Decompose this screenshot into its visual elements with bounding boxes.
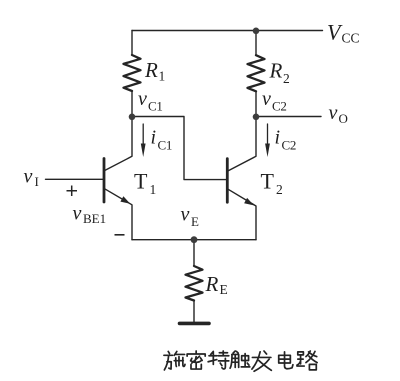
resistor R1 [124, 55, 141, 91]
caption glyph 施 [164, 351, 185, 369]
svg-text:T: T [134, 169, 148, 194]
node vE dot [191, 236, 198, 243]
svg-text:C2: C2 [272, 99, 287, 114]
wire RE to ground [193, 301, 195, 323]
wire input vI to T1 base [46, 178, 103, 180]
caption glyph 路 [297, 351, 317, 370]
caption glyph 触 [230, 351, 250, 368]
wire R2 bottom lead [255, 91, 257, 117]
polarity plus sign [67, 186, 78, 197]
svg-text:O: O [339, 111, 348, 126]
svg-text:C1: C1 [158, 138, 173, 153]
svg-text:E: E [220, 282, 228, 297]
arrowhead iC2 [265, 144, 270, 158]
svg-text:2: 2 [283, 71, 290, 86]
node vC1 dot [129, 114, 136, 121]
wire bottom emitter rail [132, 239, 256, 241]
svg-text:v: v [138, 88, 147, 110]
wire node vC2 down to T2 collector [229, 117, 257, 171]
arrowhead T1 emitter [120, 196, 130, 204]
transistor T1 bar [103, 159, 106, 203]
polarity minus sign [115, 234, 125, 236]
svg-text:C2: C2 [282, 138, 297, 153]
caption glyph 密 [187, 351, 205, 369]
wire cross-coupling vC1 to T2 base [132, 117, 226, 180]
svg-text:v: v [24, 166, 33, 188]
svg-text:1: 1 [159, 69, 166, 84]
ground [180, 322, 210, 326]
caption glyph 特 [208, 351, 229, 369]
arrowhead T2 emitter [244, 198, 254, 206]
svg-text:R: R [144, 58, 158, 82]
svg-text:R: R [269, 59, 283, 83]
transistor T2 bar [226, 159, 229, 203]
wire vE down to RE [193, 240, 195, 266]
arrowhead iC1 [141, 144, 146, 158]
svg-text:i: i [151, 127, 157, 149]
current arrow iC2 [267, 124, 269, 146]
caption glyph 电 [279, 352, 293, 369]
node vC2 dot [253, 114, 260, 121]
svg-text:v: v [73, 203, 82, 225]
wire R1 top lead [131, 31, 133, 56]
svg-text:1: 1 [150, 182, 157, 197]
caption 施密特触发电路 (hand-drawn glyphs) [164, 351, 317, 371]
svg-text:C1: C1 [148, 99, 163, 114]
svg-text:T: T [261, 169, 275, 194]
svg-text:i: i [275, 127, 281, 149]
wire T1 emitter [105, 189, 132, 240]
resistor RE [186, 266, 203, 301]
wire R1 bottom lead [131, 91, 133, 117]
current arrow iC1 [142, 124, 144, 146]
wire vC2 to vO output [256, 116, 321, 118]
svg-text:I: I [35, 174, 39, 189]
svg-text:v: v [181, 204, 190, 226]
svg-text:CC: CC [342, 31, 360, 46]
wire top rail to VCC [132, 30, 323, 32]
wire R2 top lead [255, 31, 257, 56]
svg-text:v: v [262, 88, 271, 110]
wire T2 emitter [228, 189, 256, 240]
wire node vC1 down to T1 collector [105, 117, 132, 171]
svg-text:R: R [205, 272, 219, 296]
node junction dot on VCC rail [253, 28, 260, 35]
svg-text:E: E [191, 214, 199, 229]
svg-text:BE1: BE1 [83, 211, 106, 226]
svg-text:2: 2 [276, 182, 283, 197]
svg-text:v: v [329, 102, 338, 124]
resistor R2 [248, 55, 265, 91]
caption glyph 发 [252, 351, 271, 371]
